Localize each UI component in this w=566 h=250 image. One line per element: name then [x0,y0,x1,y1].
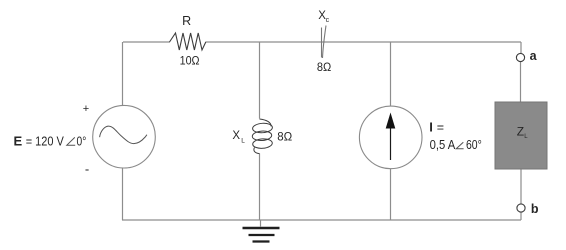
resistor R1 zigzag [170,33,206,50]
angle symbol (I) [456,142,463,149]
capacitor Xc plate 1 [321,28,323,58]
svg-text:+: + [83,103,89,115]
svg-text:10Ω: 10Ω [180,53,200,67]
current source I circle [359,106,422,169]
current source arrow [390,126,392,160]
load impedance ZL box [495,102,547,169]
svg-text:L: L [241,138,245,145]
wire inductor branch [260,42,261,227]
svg-text:c: c [326,17,330,24]
svg-text:8Ω: 8Ω [277,129,292,143]
svg-text:0,5 A: 0,5 A [430,138,456,152]
inductor XL coil [252,119,273,154]
svg-text:E: E [14,134,23,149]
svg-text:X: X [232,130,240,142]
wire current source branch [390,42,392,220]
svg-text:I: I [429,119,433,134]
wire top rail [123,41,521,43]
svg-text:b: b [531,202,539,216]
svg-text:= 120 V: = 120 V [26,135,65,149]
svg-text:R: R [182,14,191,28]
svg-text:0°: 0° [77,135,87,149]
voltage source sine wave [100,126,147,144]
wire bottom rail [122,219,521,221]
wire left branch [122,42,124,220]
svg-text:60°: 60° [466,138,482,152]
voltage source E circle [93,105,156,168]
angle symbol (E) [67,137,75,145]
svg-text:Z: Z [517,125,524,139]
terminal b [517,204,525,212]
svg-text:-: - [85,162,89,177]
wire right branch [520,42,523,220]
svg-text:8Ω: 8Ω [317,60,331,74]
svg-text:=: = [437,120,444,134]
svg-text:a: a [530,49,538,63]
capacitor Xc plate 2 [323,26,327,59]
terminal a [516,53,524,61]
ground [243,228,280,242]
